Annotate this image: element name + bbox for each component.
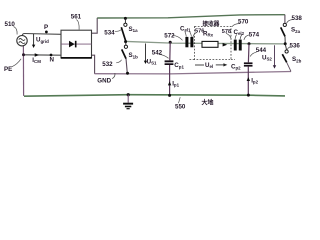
svg-text:534: 534 xyxy=(104,29,115,36)
svg-text:574: 574 xyxy=(249,31,260,38)
svg-text:PE: PE xyxy=(4,66,12,73)
svg-text:538: 538 xyxy=(292,15,303,22)
svg-text:510: 510 xyxy=(5,21,16,28)
svg-text:接收器: 接收器 xyxy=(203,20,220,28)
svg-text:544: 544 xyxy=(256,47,267,54)
svg-text:550: 550 xyxy=(175,104,186,111)
svg-text:536: 536 xyxy=(290,42,301,49)
svg-text:N: N xyxy=(50,57,55,64)
svg-text:561: 561 xyxy=(71,14,82,21)
svg-text:大地: 大地 xyxy=(202,99,214,107)
svg-text:GND: GND xyxy=(97,78,111,85)
svg-text:570: 570 xyxy=(238,18,249,25)
svg-text:542: 542 xyxy=(152,49,163,56)
svg-text:532: 532 xyxy=(102,61,113,68)
svg-text:572: 572 xyxy=(164,33,175,40)
svg-text:578: 578 xyxy=(222,29,231,35)
svg-text:P: P xyxy=(44,24,48,31)
